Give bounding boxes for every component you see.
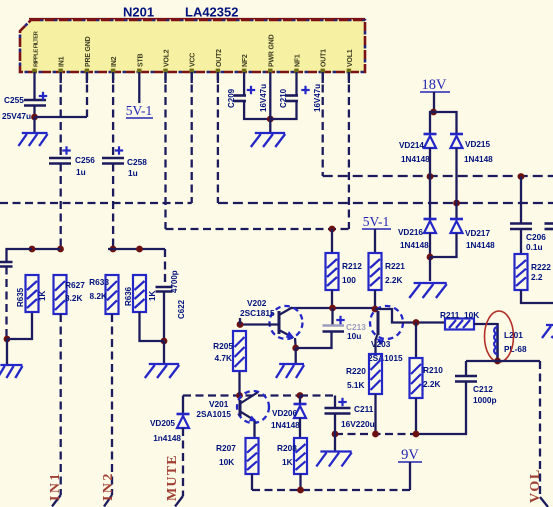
svg-text:R635: R635 [16,287,25,307]
V203 collector arrow [375,333,384,345]
resistor R627 8.2K [54,275,86,314]
svg-text:16V220u: 16V220u [341,419,375,429]
label 2SA1015 [368,353,403,363]
svg-text:4.7K: 4.7K [214,353,232,363]
wire C206 top [520,177,522,224]
resistor R636 1K [124,275,157,312]
wire VOL1 pin down [348,72,350,229]
svg-text:RIPPLE FILTER: RIPPLE FILTER [34,30,40,67]
V202 base bar [278,311,281,334]
wire R222 bottom [521,290,553,303]
svg-text:1N4148: 1N4148 [400,241,429,250]
node C211 bottom [332,431,339,438]
svg-text:5.1K: 5.1K [347,380,365,390]
svg-text:R636: R636 [124,286,133,306]
wire mute rail [183,394,300,396]
svg-text:1N4148: 1N4148 [271,421,300,430]
node R220 bottom [372,431,379,438]
wire R221 bottom [374,290,376,309]
svg-text:1K: 1K [38,291,47,301]
svg-text:2SC1815: 2SC1815 [240,308,275,318]
svg-text:NF1: NF1 [295,54,302,67]
label C213 [346,322,366,332]
wire C213 bottom to emitter node [296,332,332,349]
diode VD205 1n4148 [150,414,190,443]
resistor R633 8.2K [89,275,118,314]
wire C212 top [465,361,467,376]
svg-text:VD206: VD206 [272,409,297,418]
wire R207 bottom [251,474,253,490]
svg-text:2.2K: 2.2K [423,379,441,389]
net label 9V [398,447,422,463]
resistor R220 5.1K [346,354,382,394]
wire NF2 pin down [243,72,245,96]
svg-text:STB: STB [137,53,144,67]
svg-text:1N4148: 1N4148 [401,155,430,164]
svg-text:R210: R210 [423,365,443,375]
wire V201 collector down [253,421,255,438]
label IN2 [101,471,116,501]
label LA42352 [185,5,238,20]
label 10u [347,331,361,341]
svg-text:R221: R221 [385,261,405,271]
svg-text:IN1: IN1 [59,56,66,67]
node IN2/R633 [110,246,117,253]
node VD217 top [453,200,460,207]
node PWR GND [267,116,274,123]
wire V202 base [240,323,279,325]
svg-text:8.2K: 8.2K [65,293,83,303]
R205 top tick [239,318,241,325]
svg-text:VOL: VOL [528,468,543,503]
svg-text:5V-1: 5V-1 [126,103,153,118]
wire C622 gnd stem [163,341,165,363]
svg-text:25V47u: 25V47u [2,111,31,121]
capacitor C206 0.1u [510,224,546,253]
node VD214 bottom [427,173,434,180]
wire left cap down [5,267,7,340]
wire pwr gnd stem [269,119,271,132]
svg-text:VD205: VD205 [150,419,175,428]
svg-text:VD217: VD217 [465,229,490,238]
wire OUT1 pin down [322,72,324,176]
svg-text:4700p: 4700p [170,270,179,293]
wire R208 bottom [299,474,301,490]
wire left gnd stem [6,339,8,364]
svg-text:C212: C212 [473,384,493,394]
svg-text:PWR GND: PWR GND [268,34,275,67]
wire OUT2 rail right [218,202,553,204]
wire R636 bottom [140,312,165,341]
wire VD216 bottom [429,233,431,257]
ground mid [316,452,351,467]
svg-text:1000p: 1000p [473,395,497,405]
ground C255 [18,133,47,146]
node R208 bottom [297,487,304,494]
diode VD216 1N4148 [398,219,437,250]
net label 5V-1 at STB [126,103,153,118]
transistor V203 2SA1015 circle [370,306,403,339]
svg-text:VCC: VCC [190,53,197,67]
label MUTE [165,454,180,501]
svg-text:V201: V201 [209,399,229,409]
wire PWR GND pin down [269,72,271,119]
ground diodes [409,283,446,298]
wire NF1 cap to gnd node [270,101,296,119]
wire OUT2 pin down [217,72,219,203]
svg-text:PL-68: PL-68 [504,344,527,354]
V203 jog wire [375,309,445,323]
wire C256 down to node [60,164,62,250]
svg-text:V203: V203 [371,339,391,349]
wire IN2 pin down [112,72,114,158]
capacitor C212 1000p [455,376,497,405]
svg-text:1u: 1u [128,168,138,178]
op-amp U1 N201 LA42352 IC body [20,19,365,72]
wire C213 top [331,308,333,326]
wire R627 down to IN1 port [60,314,62,495]
ground C622 [145,364,179,378]
svg-text:R205: R205 [213,341,233,351]
svg-text:R222: R222 [531,262,551,272]
V202 collector [279,308,292,316]
node C206 top [518,173,525,180]
wire pin1 to C255 [33,72,35,100]
V203 base bar [377,311,380,335]
wire V203 to R220 [374,339,376,354]
wire STB pin down [138,72,140,103]
svg-text:5V-1: 5V-1 [363,214,390,229]
svg-text:VD216: VD216 [398,228,423,237]
capacitor C255 [2,92,47,121]
svg-text:R207: R207 [216,443,236,453]
ground left [0,365,22,378]
wire R211 to L201 [474,323,498,325]
wire left cap branch [7,249,33,262]
svg-text:VOL1: VOL1 [347,49,354,67]
svg-text:1N4148: 1N4148 [464,155,493,164]
node 18V [430,109,437,116]
svg-text:VOL2: VOL2 [164,49,171,67]
svg-text:2.2: 2.2 [531,272,543,282]
ground right edge partial [542,325,553,338]
svg-text:0.1u: 0.1u [526,242,543,252]
wire out rail [466,360,540,362]
net label 18V [420,77,450,93]
wire emitter gnd stem [295,348,297,363]
svg-text:R212: R212 [342,261,362,271]
IC pin labels and pin pads [32,30,354,73]
wire gnd stem [33,117,35,132]
V201 base bar [239,400,242,416]
wire VD215 to OUT2 rail [455,148,457,203]
wire 9V stem [409,462,411,490]
wire PRE GND pin down [86,72,88,117]
pin stubs [61,72,349,83]
svg-text:OUT2: OUT2 [216,49,223,67]
VOL port stub [540,497,548,507]
svg-text:C211: C211 [354,404,374,414]
wire R635 bottom to node [7,312,32,339]
diode VD206 1N4148 [271,404,307,430]
node R210 bottom [413,431,420,438]
wire 18V to VD214 [430,112,434,134]
label 2SC1815 [240,308,275,318]
wire R633 down to IN2 port [111,314,113,495]
wire V202 emitter down [294,338,297,348]
wire C622 down [163,292,165,342]
V201 emitter line [241,393,258,404]
capacitor C210 [279,84,322,112]
net label 5V-1 at R221 [362,214,391,229]
wire VD216 top [429,177,431,220]
wire gnd stem 434 [334,434,336,451]
wire R220 bottom [374,394,376,434]
wire C212 bottom [416,382,466,435]
wire C206 to R222 [520,229,522,254]
wire C622 top corner [164,249,166,287]
diode VD217 1N4148 [450,219,495,250]
resistor R635 1K [16,275,47,312]
svg-text:R208: R208 [277,443,297,453]
resistor R205 4.7K [213,331,246,371]
svg-text:OUT1: OUT1 [321,49,328,67]
IN1 port stub [52,495,61,507]
svg-text:IN2: IN2 [101,471,116,501]
node V202 base/R205 [237,321,244,328]
label 2SA1015 [196,409,231,419]
highlight ellipse around L201 [485,311,514,362]
node L201 bottom [494,358,501,365]
svg-text:V202: V202 [247,298,267,308]
resistor R207 10K [216,438,259,474]
svg-text:16V47u: 16V47u [259,84,268,112]
label VOL [528,468,543,503]
wire 18V to VD215 [434,112,457,134]
svg-text:N201: N201 [123,5,154,20]
capacitor left edge [0,262,13,267]
node diode gnd [427,254,434,261]
ground PWR GND [251,133,285,147]
svg-text:1N4148: 1N4148 [466,241,495,250]
svg-text:C622: C622 [177,299,186,319]
wire VD214 to OUT1 rail [429,148,431,177]
svg-text:18V: 18V [422,77,448,93]
wire VCC rail left [0,202,192,204]
MUTE port stub [175,496,183,507]
wire VOL2 rail to R212 [166,228,349,230]
node R635 top [29,246,36,253]
wire R210 top [415,323,417,359]
svg-text:9V: 9V [401,447,419,463]
capacitor C256 [49,146,95,177]
label V203 [371,339,391,349]
wire diode gnd stem [429,257,431,281]
svg-text:100: 100 [342,275,356,285]
svg-text:VD215: VD215 [465,140,490,149]
svg-text:R633: R633 [89,277,109,287]
wire R212 top stub [331,229,333,253]
node left gnd [4,336,11,343]
resistor R210 2.2K [410,358,444,398]
capacitor C211 16V220u [325,398,375,429]
resistor R211 10K [440,310,479,330]
label V201 [209,399,229,409]
resistor R208 1K [277,438,307,474]
ground V202 emitter [276,364,304,378]
svg-text:R627: R627 [65,280,85,290]
svg-text:MUTE: MUTE [165,454,180,501]
svg-text:1n4148: 1n4148 [153,434,181,443]
svg-text:2SA1015: 2SA1015 [196,409,231,419]
wire NF1 pin down [295,72,297,96]
svg-text:C206: C206 [526,232,546,242]
svg-text:NF2: NF2 [242,54,249,67]
resistor R222 2.2 [515,254,552,290]
wire R212 bottom [331,290,333,308]
wire C211 top [300,396,335,409]
svg-text:LA42352: LA42352 [185,5,238,20]
wire C209 to gnd node [244,101,270,119]
node R221/V203 [372,306,379,313]
wire VOL2 pin down [164,72,166,229]
wire OUT1 rail right [323,175,553,177]
svg-text:10u: 10u [347,331,361,341]
wire R210 bottom [415,398,417,434]
svg-text:C258: C258 [127,157,147,167]
wire VD217 bottom [430,233,457,257]
IN2 port stub [104,495,112,507]
svg-text:IN1: IN1 [48,471,63,501]
node C622 gnd [161,338,168,345]
svg-text:10K: 10K [219,457,234,467]
wire VD206 bottom [299,418,301,438]
svg-text:C209: C209 [227,88,236,108]
transistor V202 2SC1815 circle [270,306,303,339]
inductor L201 PL-68 [494,323,527,361]
wire 18V stem [433,92,435,112]
wire C258 down to node [112,164,114,250]
V201 collector with arrow [241,412,258,424]
wire gnd-node to PRE GND [35,116,88,118]
svg-text:10K: 10K [464,310,479,320]
wire VD217 top [455,203,457,219]
node under C255 [31,114,38,121]
svg-text:IN2: IN2 [111,56,118,67]
svg-text:PRE GND: PRE GND [85,36,92,67]
label V202 [247,298,267,308]
node R205 bottom [236,392,243,399]
svg-text:C256: C256 [75,155,95,165]
svg-text:C255: C255 [4,95,24,105]
svg-text:2.2K: 2.2K [385,275,403,285]
node IN1/R627 [57,246,64,253]
wire gnd rail 434 [335,433,416,435]
transistor V201 2SA1015 circle [237,391,269,423]
capacitor C258 [102,146,147,178]
svg-text:R211: R211 [440,310,460,320]
capacitor C622 4700p [156,270,187,319]
svg-text:1K: 1K [282,457,293,467]
node R210 top [413,319,420,326]
collector rail V202-V203 [291,307,376,309]
node R212 top [329,226,336,233]
wire R205 bottom stub [238,371,240,396]
wire 5V-1 to R221 [374,229,376,253]
label N201 [123,5,154,20]
wire bottom rail [252,489,410,491]
capacitor C209 [227,84,268,112]
V202 emitter with arrow [279,330,296,341]
svg-text:1u: 1u [76,167,86,177]
wire VOL column [539,361,541,497]
svg-text:8.2K: 8.2K [89,291,107,301]
wire VD205 down [182,428,184,496]
wire IN1 pin down [60,72,62,158]
wire VD206 top stub [299,396,301,405]
wire node to R636 and C622 [108,248,165,250]
node VD206 top [297,392,304,399]
wire mute corner [182,396,184,415]
wire VCC pin down [191,72,193,203]
diode VD215 1N4148 [450,134,493,164]
wire node to R635 [32,248,61,250]
label IN1 [48,471,63,501]
svg-text:C210: C210 [279,88,288,108]
svg-text:VD214: VD214 [399,141,424,150]
diode VD214 1N4148 [399,134,437,164]
node C213/R212 [329,305,336,312]
wire C255 to ground node [33,106,35,118]
resistor R221 2.2K [369,253,406,290]
svg-text:16V47u: 16V47u [313,84,322,112]
svg-text:R220: R220 [346,366,366,376]
capacitor at right edge [545,224,553,230]
wire C211 bottom [334,414,336,435]
resistor R212 100 [326,253,363,290]
capacitor C213 10u plates [323,316,345,332]
node V202 emitter [292,345,299,352]
node R636 top [136,246,143,253]
